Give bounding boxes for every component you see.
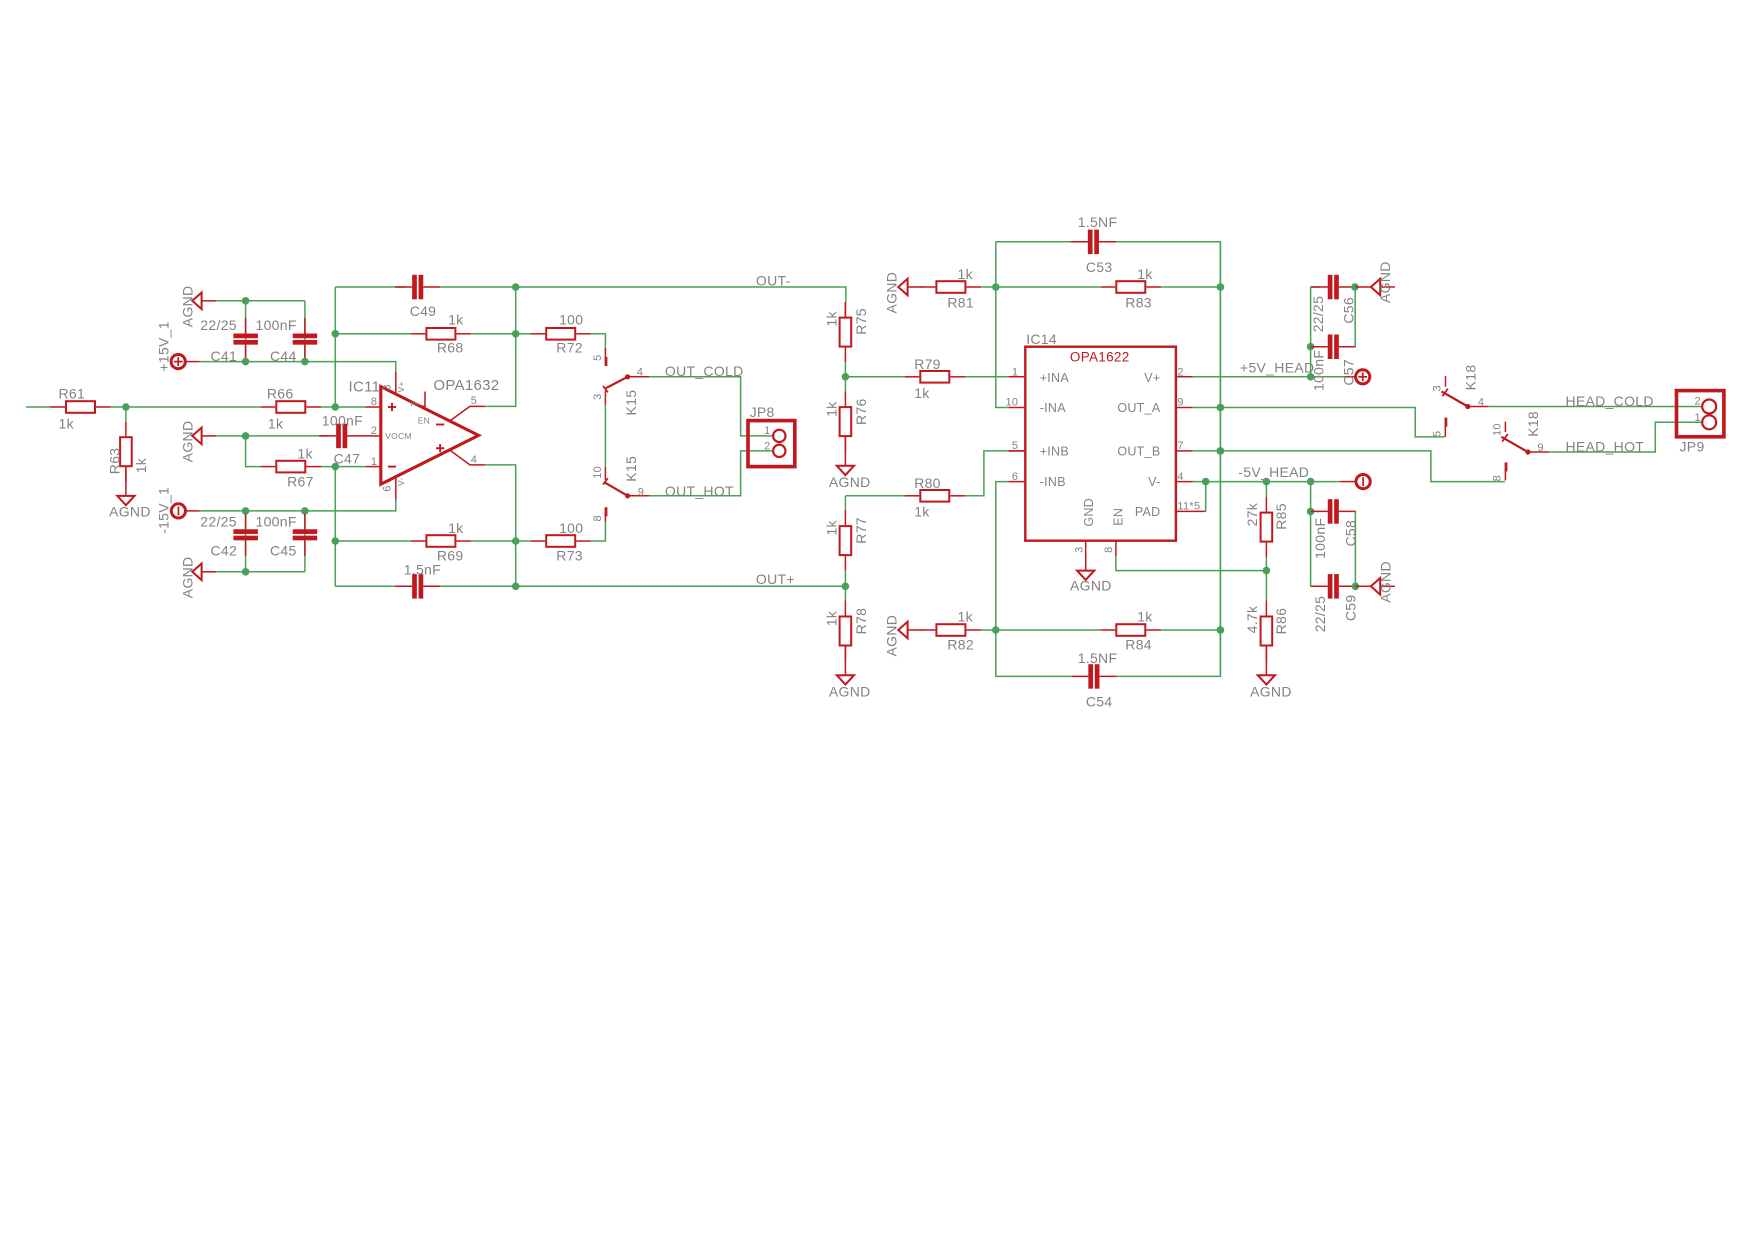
svg-text:1k: 1k bbox=[1137, 266, 1153, 282]
svg-text:22/25: 22/25 bbox=[1312, 596, 1328, 633]
svg-text:1k: 1k bbox=[448, 312, 464, 328]
svg-text:1k: 1k bbox=[958, 609, 974, 625]
svg-text:AGND: AGND bbox=[1070, 578, 1112, 594]
svg-text:5: 5 bbox=[1432, 431, 1444, 437]
svg-text:C53: C53 bbox=[1086, 259, 1113, 275]
svg-text:+5V_HEAD: +5V_HEAD bbox=[1240, 360, 1314, 376]
svg-text:EN: EN bbox=[1111, 508, 1125, 526]
svg-text:1k: 1k bbox=[268, 416, 284, 432]
svg-text:OUT+: OUT+ bbox=[756, 571, 795, 587]
svg-text:6: 6 bbox=[381, 485, 393, 491]
svg-text:AGND: AGND bbox=[179, 421, 195, 463]
svg-text:9: 9 bbox=[638, 487, 644, 499]
svg-text:-INA: -INA bbox=[1040, 401, 1067, 415]
svg-text:R72: R72 bbox=[556, 340, 583, 356]
svg-text:1k: 1k bbox=[824, 311, 840, 327]
svg-text:9: 9 bbox=[1177, 397, 1183, 409]
svg-text:2: 2 bbox=[764, 441, 770, 453]
svg-text:OUT_A: OUT_A bbox=[1117, 401, 1161, 415]
svg-text:+15V_1: +15V_1 bbox=[155, 321, 171, 371]
svg-text:K15: K15 bbox=[623, 390, 639, 416]
svg-text:C57: C57 bbox=[1340, 359, 1356, 386]
svg-text:AGND: AGND bbox=[179, 286, 195, 328]
svg-text:AGND: AGND bbox=[829, 684, 871, 700]
svg-text:1: 1 bbox=[1694, 412, 1700, 424]
svg-text:1k: 1k bbox=[59, 416, 75, 432]
svg-text:1k: 1k bbox=[914, 385, 930, 401]
svg-text:1: 1 bbox=[1012, 367, 1018, 379]
svg-text:1.5nF: 1.5nF bbox=[404, 562, 441, 578]
svg-text:AGND: AGND bbox=[109, 503, 151, 519]
svg-text:R67: R67 bbox=[287, 474, 314, 490]
svg-text:R82: R82 bbox=[947, 637, 974, 653]
svg-text:EN: EN bbox=[418, 416, 430, 426]
svg-text:AGND: AGND bbox=[179, 557, 195, 599]
svg-text:7: 7 bbox=[1177, 440, 1183, 452]
svg-text:IC14: IC14 bbox=[1026, 331, 1057, 347]
svg-text:PAD: PAD bbox=[1135, 505, 1161, 519]
svg-text:100nF: 100nF bbox=[322, 413, 363, 429]
svg-text:AGND: AGND bbox=[1377, 261, 1393, 303]
svg-text:1k: 1k bbox=[824, 401, 840, 417]
svg-text:R84: R84 bbox=[1125, 637, 1152, 653]
svg-text:C56: C56 bbox=[1340, 297, 1356, 324]
svg-text:1: 1 bbox=[371, 456, 377, 468]
svg-text:R83: R83 bbox=[1125, 294, 1152, 310]
svg-text:10: 10 bbox=[1491, 423, 1503, 436]
svg-text:2: 2 bbox=[1694, 396, 1700, 408]
svg-text:3: 3 bbox=[1073, 546, 1085, 552]
svg-text:V-: V- bbox=[396, 477, 406, 486]
svg-text:5: 5 bbox=[1012, 440, 1018, 452]
svg-text:GND: GND bbox=[1082, 498, 1096, 527]
svg-text:7: 7 bbox=[410, 400, 422, 406]
svg-text:K18: K18 bbox=[1525, 411, 1541, 437]
svg-text:8: 8 bbox=[1103, 546, 1115, 552]
svg-text:8: 8 bbox=[1491, 475, 1503, 481]
svg-text:R75: R75 bbox=[853, 308, 869, 335]
svg-text:1k: 1k bbox=[824, 520, 840, 536]
svg-text:100nF: 100nF bbox=[256, 514, 297, 530]
svg-text:V-: V- bbox=[1148, 475, 1160, 489]
svg-text:11*5: 11*5 bbox=[1177, 501, 1200, 513]
svg-text:OUT_B: OUT_B bbox=[1117, 445, 1160, 459]
svg-text:1k: 1k bbox=[914, 504, 930, 520]
svg-text:100: 100 bbox=[559, 520, 583, 536]
svg-text:C42: C42 bbox=[211, 543, 238, 559]
svg-text:C49: C49 bbox=[410, 303, 437, 319]
svg-text:R81: R81 bbox=[947, 294, 974, 310]
svg-text:V+: V+ bbox=[1144, 371, 1160, 385]
svg-text:4: 4 bbox=[637, 366, 643, 378]
svg-text:10: 10 bbox=[1005, 397, 1018, 409]
svg-text:10: 10 bbox=[592, 466, 604, 479]
svg-text:1k: 1k bbox=[448, 520, 464, 536]
svg-text:R76: R76 bbox=[853, 398, 869, 425]
svg-text:1.5NF: 1.5NF bbox=[1078, 214, 1118, 230]
svg-text:+INA: +INA bbox=[1040, 371, 1070, 385]
svg-text:4: 4 bbox=[1478, 397, 1484, 409]
svg-text:3: 3 bbox=[592, 393, 604, 399]
svg-text:4: 4 bbox=[1177, 471, 1183, 483]
svg-text:100nF: 100nF bbox=[1311, 350, 1327, 391]
svg-text:6: 6 bbox=[1012, 471, 1018, 483]
svg-text:JP8: JP8 bbox=[750, 404, 775, 420]
svg-text:4.7k: 4.7k bbox=[1244, 605, 1260, 633]
svg-text:8: 8 bbox=[371, 396, 377, 408]
svg-text:9: 9 bbox=[1537, 442, 1543, 454]
svg-text:1.5NF: 1.5NF bbox=[1078, 650, 1118, 666]
svg-text:1k: 1k bbox=[133, 457, 149, 473]
svg-text:R73: R73 bbox=[556, 548, 583, 564]
svg-text:HEAD_HOT: HEAD_HOT bbox=[1566, 438, 1645, 454]
svg-text:HEAD_COLD: HEAD_COLD bbox=[1566, 393, 1654, 409]
svg-text:-INB: -INB bbox=[1040, 475, 1066, 489]
svg-text:R68: R68 bbox=[437, 340, 464, 356]
svg-text:3: 3 bbox=[381, 384, 393, 390]
svg-text:1k: 1k bbox=[824, 610, 840, 626]
svg-text:AGND: AGND bbox=[883, 615, 899, 657]
svg-text:JP9: JP9 bbox=[1680, 439, 1705, 455]
svg-text:22/25: 22/25 bbox=[200, 514, 237, 530]
svg-text:K18: K18 bbox=[1463, 365, 1479, 391]
svg-text:C59: C59 bbox=[1342, 595, 1358, 622]
svg-text:1: 1 bbox=[764, 425, 770, 437]
svg-text:2: 2 bbox=[371, 425, 377, 437]
svg-text:VOCM: VOCM bbox=[385, 431, 412, 441]
svg-text:OPA1622: OPA1622 bbox=[1070, 350, 1130, 365]
svg-text:100: 100 bbox=[559, 312, 583, 328]
svg-text:2: 2 bbox=[1177, 367, 1183, 379]
svg-text:100nF: 100nF bbox=[1312, 518, 1328, 559]
svg-text:5: 5 bbox=[592, 354, 604, 360]
svg-text:OPA1632: OPA1632 bbox=[433, 377, 499, 394]
svg-text:8: 8 bbox=[592, 515, 604, 521]
svg-text:IC11: IC11 bbox=[349, 378, 381, 395]
svg-text:R86: R86 bbox=[1273, 608, 1289, 635]
svg-text:R61: R61 bbox=[59, 385, 86, 401]
svg-text:100nF: 100nF bbox=[256, 317, 297, 333]
svg-text:AGND: AGND bbox=[1250, 684, 1292, 700]
svg-text:4: 4 bbox=[471, 454, 477, 466]
svg-text:C45: C45 bbox=[270, 543, 297, 559]
svg-text:3: 3 bbox=[1432, 385, 1444, 391]
svg-text:R80: R80 bbox=[914, 475, 941, 491]
svg-text:R85: R85 bbox=[1273, 503, 1289, 530]
svg-text:OUT-: OUT- bbox=[756, 272, 791, 288]
svg-text:R79: R79 bbox=[914, 356, 941, 372]
svg-text:27k: 27k bbox=[1244, 502, 1260, 526]
svg-text:5: 5 bbox=[471, 395, 477, 407]
svg-text:AGND: AGND bbox=[1377, 561, 1393, 603]
svg-text:-5V_HEAD: -5V_HEAD bbox=[1238, 464, 1309, 480]
svg-text:22/25: 22/25 bbox=[1310, 296, 1326, 333]
svg-text:22/25: 22/25 bbox=[200, 317, 237, 333]
svg-text:R63: R63 bbox=[106, 448, 122, 475]
svg-text:C58: C58 bbox=[1342, 520, 1358, 547]
svg-text:R66: R66 bbox=[267, 385, 294, 401]
svg-text:K15: K15 bbox=[623, 456, 639, 482]
svg-text:1k: 1k bbox=[958, 266, 974, 282]
svg-text:1k: 1k bbox=[297, 446, 313, 462]
svg-text:-15V_1: -15V_1 bbox=[155, 487, 171, 534]
svg-text:V+: V+ bbox=[396, 381, 406, 392]
svg-text:C54: C54 bbox=[1086, 693, 1113, 709]
svg-text:R78: R78 bbox=[853, 608, 869, 635]
svg-text:AGND: AGND bbox=[883, 272, 899, 314]
svg-text:+INB: +INB bbox=[1040, 445, 1069, 459]
svg-text:R77: R77 bbox=[853, 517, 869, 544]
svg-text:1k: 1k bbox=[1137, 609, 1153, 625]
svg-text:AGND: AGND bbox=[829, 474, 871, 490]
